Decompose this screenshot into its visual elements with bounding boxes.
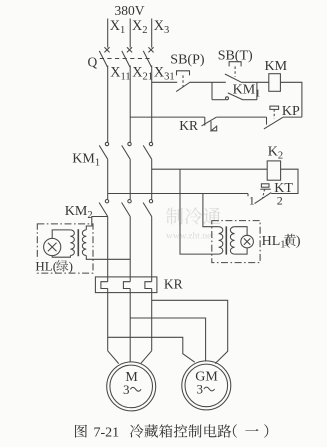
contactor coil KM label <box>265 59 288 74</box>
time relay contact KT label <box>274 181 293 196</box>
node KT terminal 2 label <box>277 193 283 207</box>
wire phases KM1 to KM2 <box>108 159 152 199</box>
wire phases KR to motor branches <box>108 289 152 363</box>
node X1 label <box>110 18 126 36</box>
wire phase X21 (Q to KM1 contact) <box>129 66 131 143</box>
wire drop from K2 rail to HL1 primary bottom <box>180 169 219 254</box>
lamp HL1 yellow <box>241 235 254 248</box>
thermal relay KR heater element phase 3 <box>145 282 152 289</box>
wire K2 coil to KT contact <box>271 169 298 193</box>
pressure switch contact KP (NC) <box>264 106 283 129</box>
breaker Q pole 1 <box>99 47 109 67</box>
wire lamp to transformer secondary (left box) <box>52 230 70 257</box>
contactor KM2 main contact pole 3 <box>143 200 153 217</box>
wire SB(T) to KM coil <box>241 81 269 83</box>
svg-text:KM: KM <box>265 59 288 74</box>
node X2 label <box>132 18 148 36</box>
contact KM1 auxiliary (self-hold) label <box>233 83 261 100</box>
breaker Q pole 3 <box>143 47 153 67</box>
contactor KM2 main contact pole 1 <box>99 200 109 217</box>
thermal relay KR heater element phase 2 <box>123 282 130 289</box>
transformer primary winding (right box) <box>219 227 223 254</box>
breaker Q label <box>88 55 98 70</box>
wire drop from X1 rail to HL1 primary top <box>203 194 219 227</box>
svg-text:3: 3 <box>123 382 130 397</box>
thermal relay KR heater box <box>95 277 156 293</box>
wire rail from X3 to K2 coil <box>152 168 268 170</box>
caption 图 7-21 冷藏箱控制电路（一） <box>75 424 268 440</box>
indicator lamp unit HL1(yellow) box <box>212 221 260 263</box>
thermal contact KR label <box>179 118 198 133</box>
wire phase X2 top <box>129 19 131 48</box>
svg-text:KR: KR <box>179 118 198 133</box>
node X11 label <box>110 64 130 82</box>
svg-text:SB(P): SB(P) <box>170 53 205 68</box>
contact KM1 auxiliary NO branch <box>212 82 257 100</box>
svg-text:SB(T): SB(T) <box>218 48 253 63</box>
svg-text:): ) <box>296 234 301 249</box>
breaker Q linkage (dashed) <box>100 58 153 60</box>
motor GM 3-phase <box>182 361 231 410</box>
lamp HL(green) label <box>33 258 75 273</box>
contactor coil KM <box>269 74 281 92</box>
node 380V supply label <box>115 3 145 18</box>
contactor KM2 main contacts label <box>65 204 93 221</box>
wire phase X3 top <box>151 19 153 48</box>
svg-text:380V: 380V <box>115 3 145 18</box>
thermal relay KR heater element phase 1 <box>101 282 108 289</box>
svg-text:7-21: 7-21 <box>94 425 120 440</box>
time relay contact KT (delayed) <box>255 184 272 204</box>
wire phase X11 (Q to KM1 contact) <box>107 66 109 143</box>
wire GM branch from X3 <box>152 300 228 363</box>
lamp HL1(yellow) label <box>262 234 301 251</box>
transformer core (left box) <box>77 229 79 256</box>
wire HL green lamp primary bottom to X2 <box>86 256 130 260</box>
wire control tap from X31 to SB(P) <box>152 81 178 83</box>
indicator lamp unit HL(green) box <box>37 224 93 273</box>
node X31 label <box>154 64 175 82</box>
contactor KM1 main contacts label <box>72 151 100 168</box>
breaker Q pole 2 <box>122 47 132 67</box>
node X3 label <box>154 18 170 36</box>
svg-text:3: 3 <box>197 382 204 397</box>
transformer core (right box) <box>225 226 227 254</box>
contactor KM2 main contact pole 2 <box>122 200 132 217</box>
contactor KM1 main contact pole 2 <box>122 142 132 159</box>
watermark 制冷通 www.zht.net <box>166 207 221 241</box>
wire GM branch from X2 <box>130 318 205 361</box>
wire return rail from X2 to KR contact <box>130 116 205 118</box>
svg-text:): ) <box>69 258 73 273</box>
node X21 label <box>132 64 153 82</box>
wire phases KM2 to KR heaters <box>108 217 152 282</box>
transformer secondary winding (right box) <box>230 227 234 254</box>
svg-text:HL(: HL( <box>35 258 57 273</box>
wire rail from X1 to KT terminal 1 <box>108 194 248 197</box>
svg-text:2: 2 <box>277 193 283 207</box>
relay coil K2 <box>267 161 280 180</box>
wire phase X31 (Q to KM1 contact) <box>151 66 153 143</box>
wire SB(P) to SB(T)/KM1 parallel group <box>190 81 226 83</box>
contactor KM1 main contact pole 1 <box>99 142 109 159</box>
wire secondary to lamp HL1 <box>235 227 248 254</box>
wire KR to KP <box>216 116 266 118</box>
pushbutton SB(T) label <box>218 48 253 63</box>
lamp HL green <box>44 238 61 255</box>
relay coil K2 label <box>268 144 283 161</box>
svg-text:www.zht.net: www.zht.net <box>166 232 214 242</box>
pressure switch KP label <box>282 104 300 119</box>
transformer primary winding (left box) <box>82 230 86 256</box>
wire KP to KM coil drop <box>283 116 302 118</box>
wire KM coil to right drop <box>280 82 302 117</box>
svg-text:Q: Q <box>88 55 98 70</box>
wire tap X1 to HL green lamp primary top <box>86 217 107 230</box>
pushbutton SB(T) (NO start) <box>225 62 241 82</box>
svg-text:1: 1 <box>249 193 255 207</box>
thermal relay KR heater label <box>164 276 183 291</box>
node KT terminal 1 label <box>249 193 255 207</box>
wire GM branch from X1 <box>108 337 195 362</box>
motor M 3-phase <box>107 362 156 411</box>
pushbutton SB(P) (NC stop) <box>176 71 190 92</box>
pushbutton SB(P) label <box>170 53 205 68</box>
transformer secondary winding (left box) <box>70 230 74 256</box>
wire phase X1 top <box>107 19 109 48</box>
wire M motor leads <box>108 351 152 364</box>
contactor KM1 main contact pole 3 <box>143 142 153 159</box>
svg-text:KR: KR <box>164 276 183 291</box>
thermal relay contact KR (NC) <box>202 117 217 131</box>
